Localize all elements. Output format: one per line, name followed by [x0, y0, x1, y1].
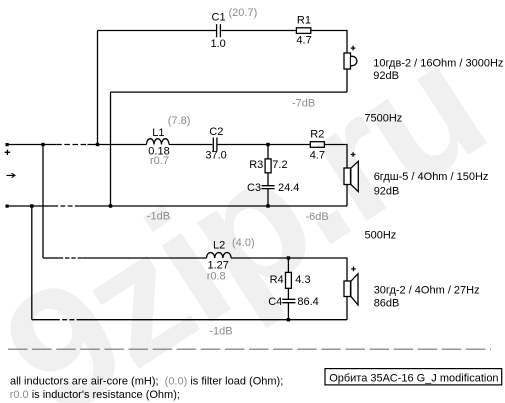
- speaker LS2 body: [344, 168, 351, 185]
- plus sign input: [5, 150, 10, 155]
- speaker LS2 cone: [351, 161, 359, 191]
- svg-text:86.4: 86.4: [297, 296, 318, 308]
- junction bottom rail x110: [109, 204, 112, 207]
- inductor L2: [207, 253, 232, 259]
- svg-text:-6dB: -6dB: [306, 211, 329, 223]
- wire woofer feed dashed: [59, 257, 82, 259]
- svg-text:24.4: 24.4: [278, 182, 299, 194]
- wire tweeter return vertical to minus rail: [110, 92, 112, 206]
- junction top rail x43: [41, 143, 44, 146]
- junction bottom rail C3 node: [266, 204, 269, 207]
- wire bottom rail dashed: [53, 205, 80, 207]
- capacitor C4: [282, 299, 295, 302]
- wire speaker1 bottom to return: [346, 69, 348, 92]
- wire R1 to corner and down to speaker1: [311, 31, 347, 54]
- svg-text:r0.7: r0.7: [150, 155, 169, 167]
- svg-text:all inductors are air-core (mH: all inductors are air-core (mH); (0.0) i…: [10, 376, 283, 388]
- capacitor C1: [217, 24, 221, 37]
- wire tweeter feed vertical: [97, 31, 99, 145]
- svg-text:Орбита 35АС-16 G_J modificatio: Орбита 35АС-16 G_J modification: [329, 372, 498, 384]
- wire woofer feed solid left: [43, 257, 59, 259]
- resistor R4: [286, 272, 292, 288]
- wire R3 C3 branch: [267, 145, 269, 207]
- plus sign LS1: [351, 46, 356, 51]
- svg-text:4.7: 4.7: [310, 150, 325, 162]
- wire top rail dashed: [56, 144, 87, 146]
- svg-text:4.3: 4.3: [295, 274, 310, 286]
- svg-text:1.0: 1.0: [211, 38, 226, 50]
- wire woofer feed vertical: [42, 145, 44, 259]
- svg-text:-1dB: -1dB: [209, 325, 232, 337]
- svg-text:r0.0 is inductor's resistance: r0.0 is inductor's resistance (Ohm);: [10, 389, 180, 401]
- svg-text:L1: L1: [152, 127, 164, 139]
- speaker LS1 dome: [351, 56, 357, 65]
- plus sign LS2: [351, 152, 356, 157]
- junction woofer return C4 node: [287, 318, 290, 321]
- svg-text:37.0: 37.0: [205, 150, 226, 162]
- wire top rail solid left: [7, 144, 56, 146]
- svg-text:R1: R1: [297, 14, 311, 26]
- svg-text:R2: R2: [310, 128, 324, 140]
- wire L2 to speaker3: [231, 258, 347, 281]
- svg-text:30гд-2 / 4Ohm / 27Hz: 30гд-2 / 4Ohm / 27Hz: [374, 284, 480, 296]
- svg-text:C4: C4: [268, 296, 282, 308]
- svg-text:500Hz: 500Hz: [365, 230, 397, 242]
- svg-text:(20.7): (20.7): [229, 7, 258, 19]
- svg-text:4.7: 4.7: [296, 34, 311, 46]
- wire woofer return vertical: [31, 206, 33, 320]
- wire R4 C4 branch: [287, 258, 289, 320]
- svg-text:(7.8): (7.8): [168, 115, 191, 127]
- svg-text:92dB: 92dB: [374, 186, 400, 198]
- wire tweeter top right segment: [221, 30, 296, 32]
- svg-text:1.27: 1.27: [208, 259, 229, 271]
- wire woofer return dashed: [55, 319, 82, 321]
- svg-text:10гдв-2 / 16Ohm / 3000Hz: 10гдв-2 / 16Ohm / 3000Hz: [373, 58, 503, 70]
- junction woofer feed R4 node: [287, 256, 290, 259]
- junction bottom rail x31: [30, 204, 33, 207]
- input terminal minus: [6, 205, 9, 208]
- separator dashed line: [8, 348, 491, 350]
- capacitor C2: [213, 138, 217, 152]
- title box: [325, 369, 502, 385]
- plus sign LS3: [351, 267, 356, 272]
- arrow input: [7, 173, 15, 177]
- svg-text:7500Hz: 7500Hz: [364, 113, 402, 125]
- svg-text:C2: C2: [209, 126, 223, 138]
- speaker LS3 body: [344, 281, 351, 297]
- resistor R3: [265, 159, 271, 173]
- wire speaker2 bottom to minus rail: [346, 185, 348, 207]
- svg-text:7.2: 7.2: [272, 159, 287, 171]
- resistor R1: [296, 28, 310, 34]
- svg-text:-1dB: -1dB: [147, 210, 170, 222]
- wire woofer feed to L2: [82, 257, 206, 259]
- junction top rail R3 node: [266, 143, 269, 146]
- wire C2 to R2: [217, 144, 310, 146]
- wire L1 to C2: [169, 144, 212, 146]
- wire R2 to speaker2: [324, 145, 347, 169]
- svg-text:C3: C3: [247, 182, 261, 194]
- svg-text:L2: L2: [213, 239, 225, 251]
- svg-text:86dB: 86dB: [374, 297, 400, 309]
- wire tweeter return horizontal: [111, 91, 348, 93]
- wire tweeter top left segment: [98, 30, 216, 32]
- svg-text:6гдш-5 / 4Ohm / 150Hz: 6гдш-5 / 4Ohm / 150Hz: [374, 171, 489, 183]
- input terminal plus: [6, 143, 9, 146]
- wire woofer return solid left: [32, 319, 55, 321]
- svg-text:(4.0): (4.0): [232, 237, 255, 249]
- speaker LS3 cone: [351, 274, 358, 305]
- svg-text:-7dB: -7dB: [292, 97, 315, 109]
- svg-text:r0.8: r0.8: [207, 271, 226, 283]
- resistor R2: [310, 142, 324, 148]
- wire bottom rail right: [80, 205, 347, 207]
- wire woofer return horizontal right: [82, 319, 347, 321]
- junction top rail x97: [96, 143, 99, 146]
- inductor L1: [147, 139, 170, 145]
- capacitor C3: [262, 186, 275, 189]
- speaker LS1 body: [344, 53, 351, 69]
- wire speaker3 bottom: [346, 297, 348, 320]
- svg-text:R4: R4: [270, 274, 284, 286]
- wire top rail to L1: [88, 144, 147, 146]
- svg-text:92dB: 92dB: [373, 70, 399, 82]
- wire bottom rail solid left: [7, 205, 53, 207]
- svg-text:C1: C1: [212, 12, 226, 24]
- svg-text:R3: R3: [249, 159, 263, 171]
